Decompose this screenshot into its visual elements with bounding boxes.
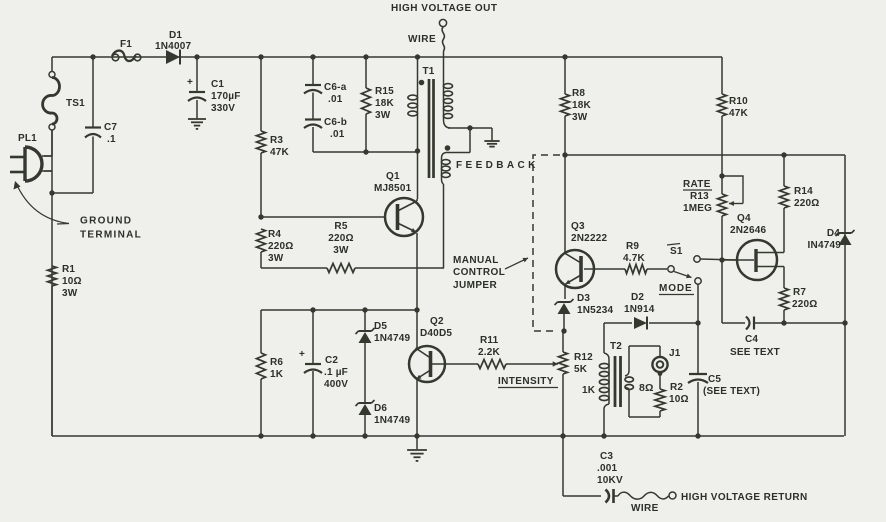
svg-text:MODE: MODE [659, 283, 693, 294]
svg-text:D3: D3 [577, 293, 590, 304]
svg-text:3W: 3W [62, 288, 78, 299]
svg-text:47K: 47K [270, 147, 290, 158]
svg-text:C3: C3 [600, 451, 613, 462]
svg-text:Q4: Q4 [737, 213, 751, 224]
svg-text:220Ω: 220Ω [268, 241, 294, 252]
svg-text:(SEE TEXT): (SEE TEXT) [703, 386, 760, 397]
svg-text:3W: 3W [572, 112, 588, 123]
svg-text:2.2K: 2.2K [478, 347, 501, 358]
svg-text:Q3: Q3 [571, 221, 585, 232]
svg-text:R10: R10 [729, 96, 748, 107]
svg-text:R1: R1 [62, 264, 75, 275]
svg-text:C2: C2 [325, 355, 338, 366]
svg-text:330V: 330V [211, 103, 235, 114]
svg-text:C4: C4 [745, 334, 758, 345]
svg-text:R7: R7 [793, 287, 806, 298]
svg-text:3W: 3W [268, 253, 284, 264]
svg-text:JUMPER: JUMPER [453, 280, 497, 291]
svg-text:R6: R6 [270, 357, 283, 368]
svg-text:R14: R14 [794, 186, 813, 197]
svg-text:CONTROL: CONTROL [453, 267, 505, 278]
svg-text:18K: 18K [572, 100, 592, 111]
svg-text:2N2222: 2N2222 [571, 233, 607, 244]
svg-text:R8: R8 [572, 88, 585, 99]
svg-text:C6-b: C6-b [324, 117, 347, 128]
svg-text:3W: 3W [333, 245, 349, 256]
svg-text:D6: D6 [374, 403, 387, 414]
svg-text:R15: R15 [375, 86, 394, 97]
svg-text:1N4749: 1N4749 [374, 333, 410, 344]
svg-text:+: + [299, 349, 305, 360]
svg-text:D1: D1 [169, 30, 182, 41]
svg-text:D4: D4 [827, 228, 840, 239]
svg-text:+: + [187, 77, 193, 88]
svg-text:10KV: 10KV [597, 475, 623, 486]
svg-text:4.7K: 4.7K [623, 253, 646, 264]
svg-text:T1: T1 [423, 66, 435, 77]
svg-text:FEEDBACK: FEEDBACK [456, 160, 539, 171]
svg-text:HIGH VOLTAGE OUT: HIGH VOLTAGE OUT [391, 3, 498, 14]
svg-text:R9: R9 [626, 241, 639, 252]
svg-text:.001: .001 [597, 463, 618, 474]
svg-text:47K: 47K [729, 108, 749, 119]
svg-text:R12: R12 [574, 352, 593, 363]
svg-text:1N914: 1N914 [624, 304, 655, 315]
svg-text:Q2: Q2 [430, 316, 444, 327]
svg-text:1K: 1K [582, 385, 596, 396]
svg-text:400V: 400V [324, 379, 348, 390]
svg-text:WIRE: WIRE [408, 34, 436, 45]
svg-text:R5: R5 [334, 221, 347, 232]
svg-text:C1: C1 [211, 79, 224, 90]
svg-text:.1: .1 [107, 134, 116, 145]
svg-text:INTENSITY: INTENSITY [498, 376, 554, 387]
svg-text:S1: S1 [670, 246, 683, 257]
svg-text:.1 µF: .1 µF [324, 367, 348, 378]
svg-text:5K: 5K [574, 364, 588, 375]
svg-text:170µF: 170µF [211, 91, 241, 102]
svg-text:R4: R4 [268, 229, 281, 240]
svg-text:.01: .01 [330, 129, 345, 140]
svg-text:J1: J1 [669, 348, 681, 359]
svg-text:TERMINAL: TERMINAL [80, 230, 142, 241]
svg-text:18K: 18K [375, 98, 395, 109]
svg-text:220Ω: 220Ω [328, 233, 354, 244]
svg-text:.01: .01 [328, 94, 343, 105]
svg-text:1N5234: 1N5234 [577, 305, 613, 316]
svg-text:D40D5: D40D5 [420, 328, 452, 339]
svg-text:10Ω: 10Ω [669, 394, 689, 405]
svg-text:1K: 1K [270, 369, 284, 380]
svg-text:MANUAL: MANUAL [453, 255, 499, 266]
svg-text:10Ω: 10Ω [62, 276, 82, 287]
svg-text:1MEG: 1MEG [683, 203, 712, 214]
svg-text:MJ8501: MJ8501 [374, 183, 412, 194]
svg-text:R3: R3 [270, 135, 283, 146]
svg-text:3W: 3W [375, 110, 391, 121]
svg-text:2N2646: 2N2646 [730, 225, 766, 236]
svg-text:Q1: Q1 [386, 171, 400, 182]
svg-text:220Ω: 220Ω [794, 198, 820, 209]
svg-text:R11: R11 [480, 335, 499, 346]
svg-text:1N4007: 1N4007 [155, 41, 191, 52]
svg-text:R2: R2 [670, 382, 683, 393]
svg-text:220Ω: 220Ω [792, 299, 818, 310]
svg-text:1N4749: 1N4749 [374, 415, 410, 426]
svg-text:T2: T2 [610, 341, 622, 352]
svg-text:D2: D2 [631, 292, 644, 303]
svg-text:HIGH VOLTAGE RETURN: HIGH VOLTAGE RETURN [681, 492, 808, 503]
svg-text:C7: C7 [104, 122, 117, 133]
svg-text:PL1: PL1 [18, 133, 37, 144]
svg-text:R13: R13 [690, 191, 709, 202]
svg-text:8Ω: 8Ω [639, 382, 654, 394]
svg-text:SEE TEXT: SEE TEXT [730, 347, 780, 358]
svg-text:TS1: TS1 [66, 98, 85, 109]
svg-text:D5: D5 [374, 321, 387, 332]
svg-text:IN4749: IN4749 [808, 240, 842, 251]
svg-text:RATE: RATE [683, 179, 711, 190]
svg-text:F1: F1 [120, 39, 132, 50]
svg-text:C5: C5 [708, 374, 721, 385]
svg-text:WIRE: WIRE [631, 503, 659, 514]
svg-text:GROUND: GROUND [80, 216, 132, 227]
svg-text:C6-a: C6-a [324, 82, 347, 93]
